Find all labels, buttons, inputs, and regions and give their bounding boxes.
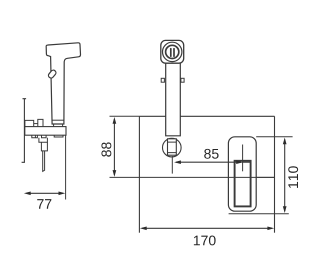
inner circle of spray face <box>166 45 179 58</box>
dimension 110 line with arrows <box>283 138 287 214</box>
88 top extension line <box>110 115 140 117</box>
handle escutcheon (rounded rect) <box>228 137 256 211</box>
bump 2 on bar <box>38 119 43 126</box>
spray face slots <box>171 49 174 57</box>
dimension 77 line with arrows <box>24 191 65 195</box>
valve body <box>39 138 48 143</box>
dimension 170 line with arrows <box>140 226 274 230</box>
ball joint clip <box>168 139 177 155</box>
front view: mounting plate <box>139 116 274 232</box>
110 bottom extension line <box>229 213 289 215</box>
sprayer column (front view) <box>166 63 181 136</box>
valve collar under bar <box>42 135 47 138</box>
extension line for 77 dim <box>65 135 67 199</box>
sprayer centerline <box>171 156 173 174</box>
connector step between bumps <box>34 123 38 125</box>
wall line (side view) <box>22 99 27 163</box>
lever (inner rect) <box>235 161 251 207</box>
right tab under bar <box>54 135 63 137</box>
hanging loop on handle <box>47 69 57 79</box>
dimension 85 line with arrows <box>174 160 251 164</box>
handle collar line (side view) <box>52 119 63 121</box>
inlet tube <box>43 151 45 172</box>
sprayer head and handle (side view) <box>46 43 80 124</box>
dimension 88 line with arrows <box>113 117 117 177</box>
neck below handle (side view) <box>54 124 63 127</box>
mounting bar (side view) <box>25 127 66 136</box>
left tab under bar <box>32 135 38 138</box>
valve lower body <box>41 142 47 151</box>
sprayer head (front view, rounded square) <box>161 40 184 63</box>
left ear on column <box>161 78 164 82</box>
label 110 <box>288 166 298 188</box>
label 85 <box>204 149 218 159</box>
ball joint circle <box>163 138 182 157</box>
outer circle of spray face <box>163 42 182 61</box>
label 170 <box>194 236 216 246</box>
lever centerline <box>242 145 244 172</box>
88 extension over lever <box>229 176 275 178</box>
right ear on column <box>181 78 184 82</box>
bump 1 on bar <box>25 120 34 126</box>
110 top extension line <box>256 136 292 138</box>
label 77 <box>37 199 51 209</box>
label 88 <box>101 142 111 156</box>
88 bottom extension line across plate <box>110 176 275 178</box>
